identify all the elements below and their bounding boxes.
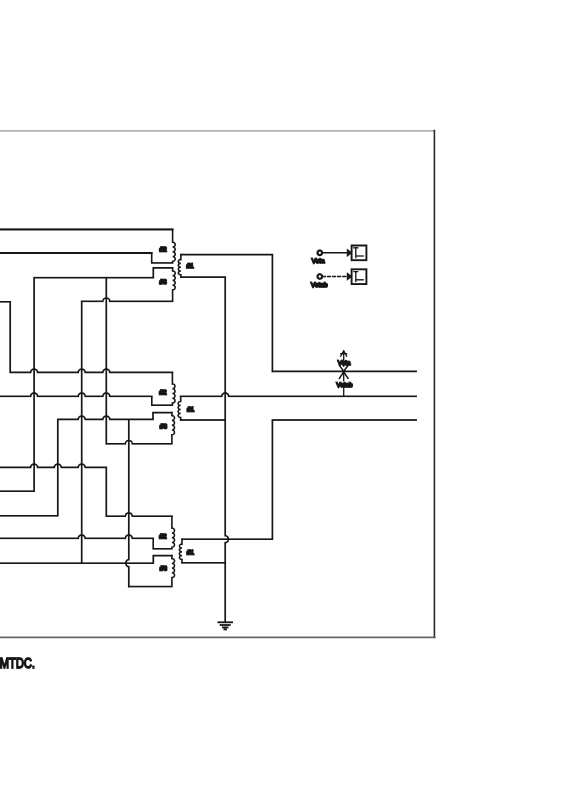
transformer T1 winding #1 <box>178 255 181 278</box>
meter block Vstab <box>352 269 367 284</box>
node Vsta input <box>318 251 323 256</box>
transformer T1 winding #3 <box>82 268 176 301</box>
svg-text:#1: #1 <box>187 263 195 270</box>
wire T1 #3 bottom delta link down to T3 #3 top net <box>81 301 83 563</box>
bus wire Vsta output (middle bus) <box>181 393 416 396</box>
transformer T3 winding #2 <box>153 516 174 549</box>
probe arrow Vstab (up arrowhead below bus, shaft to lower bus) <box>339 372 348 396</box>
svg-text:#3: #3 <box>160 566 168 573</box>
svg-text:#2: #2 <box>159 533 167 540</box>
wire net B top (to T2 #2 top) <box>0 302 172 373</box>
transformer T2 winding #2 <box>152 372 175 405</box>
wire net A bottom (from T1 #2 bottom) <box>0 252 152 254</box>
wire T3 #3 top delta link (to left terminal) <box>0 556 172 564</box>
svg-text:#1: #1 <box>187 406 195 413</box>
svg-text:Vsta: Vsta <box>312 258 325 265</box>
transformer T2 winding #3 <box>106 413 174 444</box>
meter block Vsta <box>352 246 367 261</box>
wire net B bottom (from T2 #2 bottom) <box>0 393 152 396</box>
wire T1 #1 top to bus corner <box>181 255 273 372</box>
svg-text:MTDC.: MTDC. <box>0 655 35 672</box>
node Vstab input <box>318 274 323 279</box>
wire T3 #1 bottom to ground net <box>182 562 225 564</box>
wire T2 #3 top delta link (to left terminal) <box>0 413 172 516</box>
wire net A top (to T1 #2 top) <box>0 228 173 230</box>
svg-text:#3: #3 <box>160 279 168 286</box>
svg-text:#1: #1 <box>187 550 195 557</box>
wire T1 #1 bottom down to ground node <box>181 277 229 622</box>
wire net C top (to T3 #2 top) <box>0 464 172 516</box>
svg-text:Vstab: Vstab <box>336 382 353 389</box>
wire T1 #3 top delta link (to left terminal) <box>0 268 173 491</box>
svg-text:#2: #2 <box>159 389 167 396</box>
transformer T2 winding #1 <box>178 396 181 420</box>
wire T3 #3 bottom delta link up to T2 #3 top net <box>126 419 129 586</box>
wire T2 #1 bottom to ground net <box>181 419 226 421</box>
probe arrow Vsta (up arrow above bus) <box>340 351 348 371</box>
svg-text:Vstab: Vstab <box>311 282 328 289</box>
svg-text:#3: #3 <box>160 423 168 430</box>
wire T2 #3 bottom delta link up to T1 #3 top net <box>105 278 107 444</box>
transformer T3 winding #1 <box>179 539 182 563</box>
svg-text:Vsta: Vsta <box>338 360 351 367</box>
transformer T3 winding #3 <box>129 556 175 587</box>
wire Vsta signal with arrowhead <box>323 252 348 254</box>
wire net C bottom (from T3 #2 bottom) <box>0 535 153 538</box>
wire Vstab signal dashed with arrowhead <box>323 276 348 278</box>
transformer T1 winding #2 <box>152 229 176 263</box>
bus wire Vsta upper bus <box>272 370 416 372</box>
ground <box>218 622 232 629</box>
svg-text:#2: #2 <box>160 247 168 254</box>
wire T3 #1 top to bottom bus <box>182 420 416 539</box>
